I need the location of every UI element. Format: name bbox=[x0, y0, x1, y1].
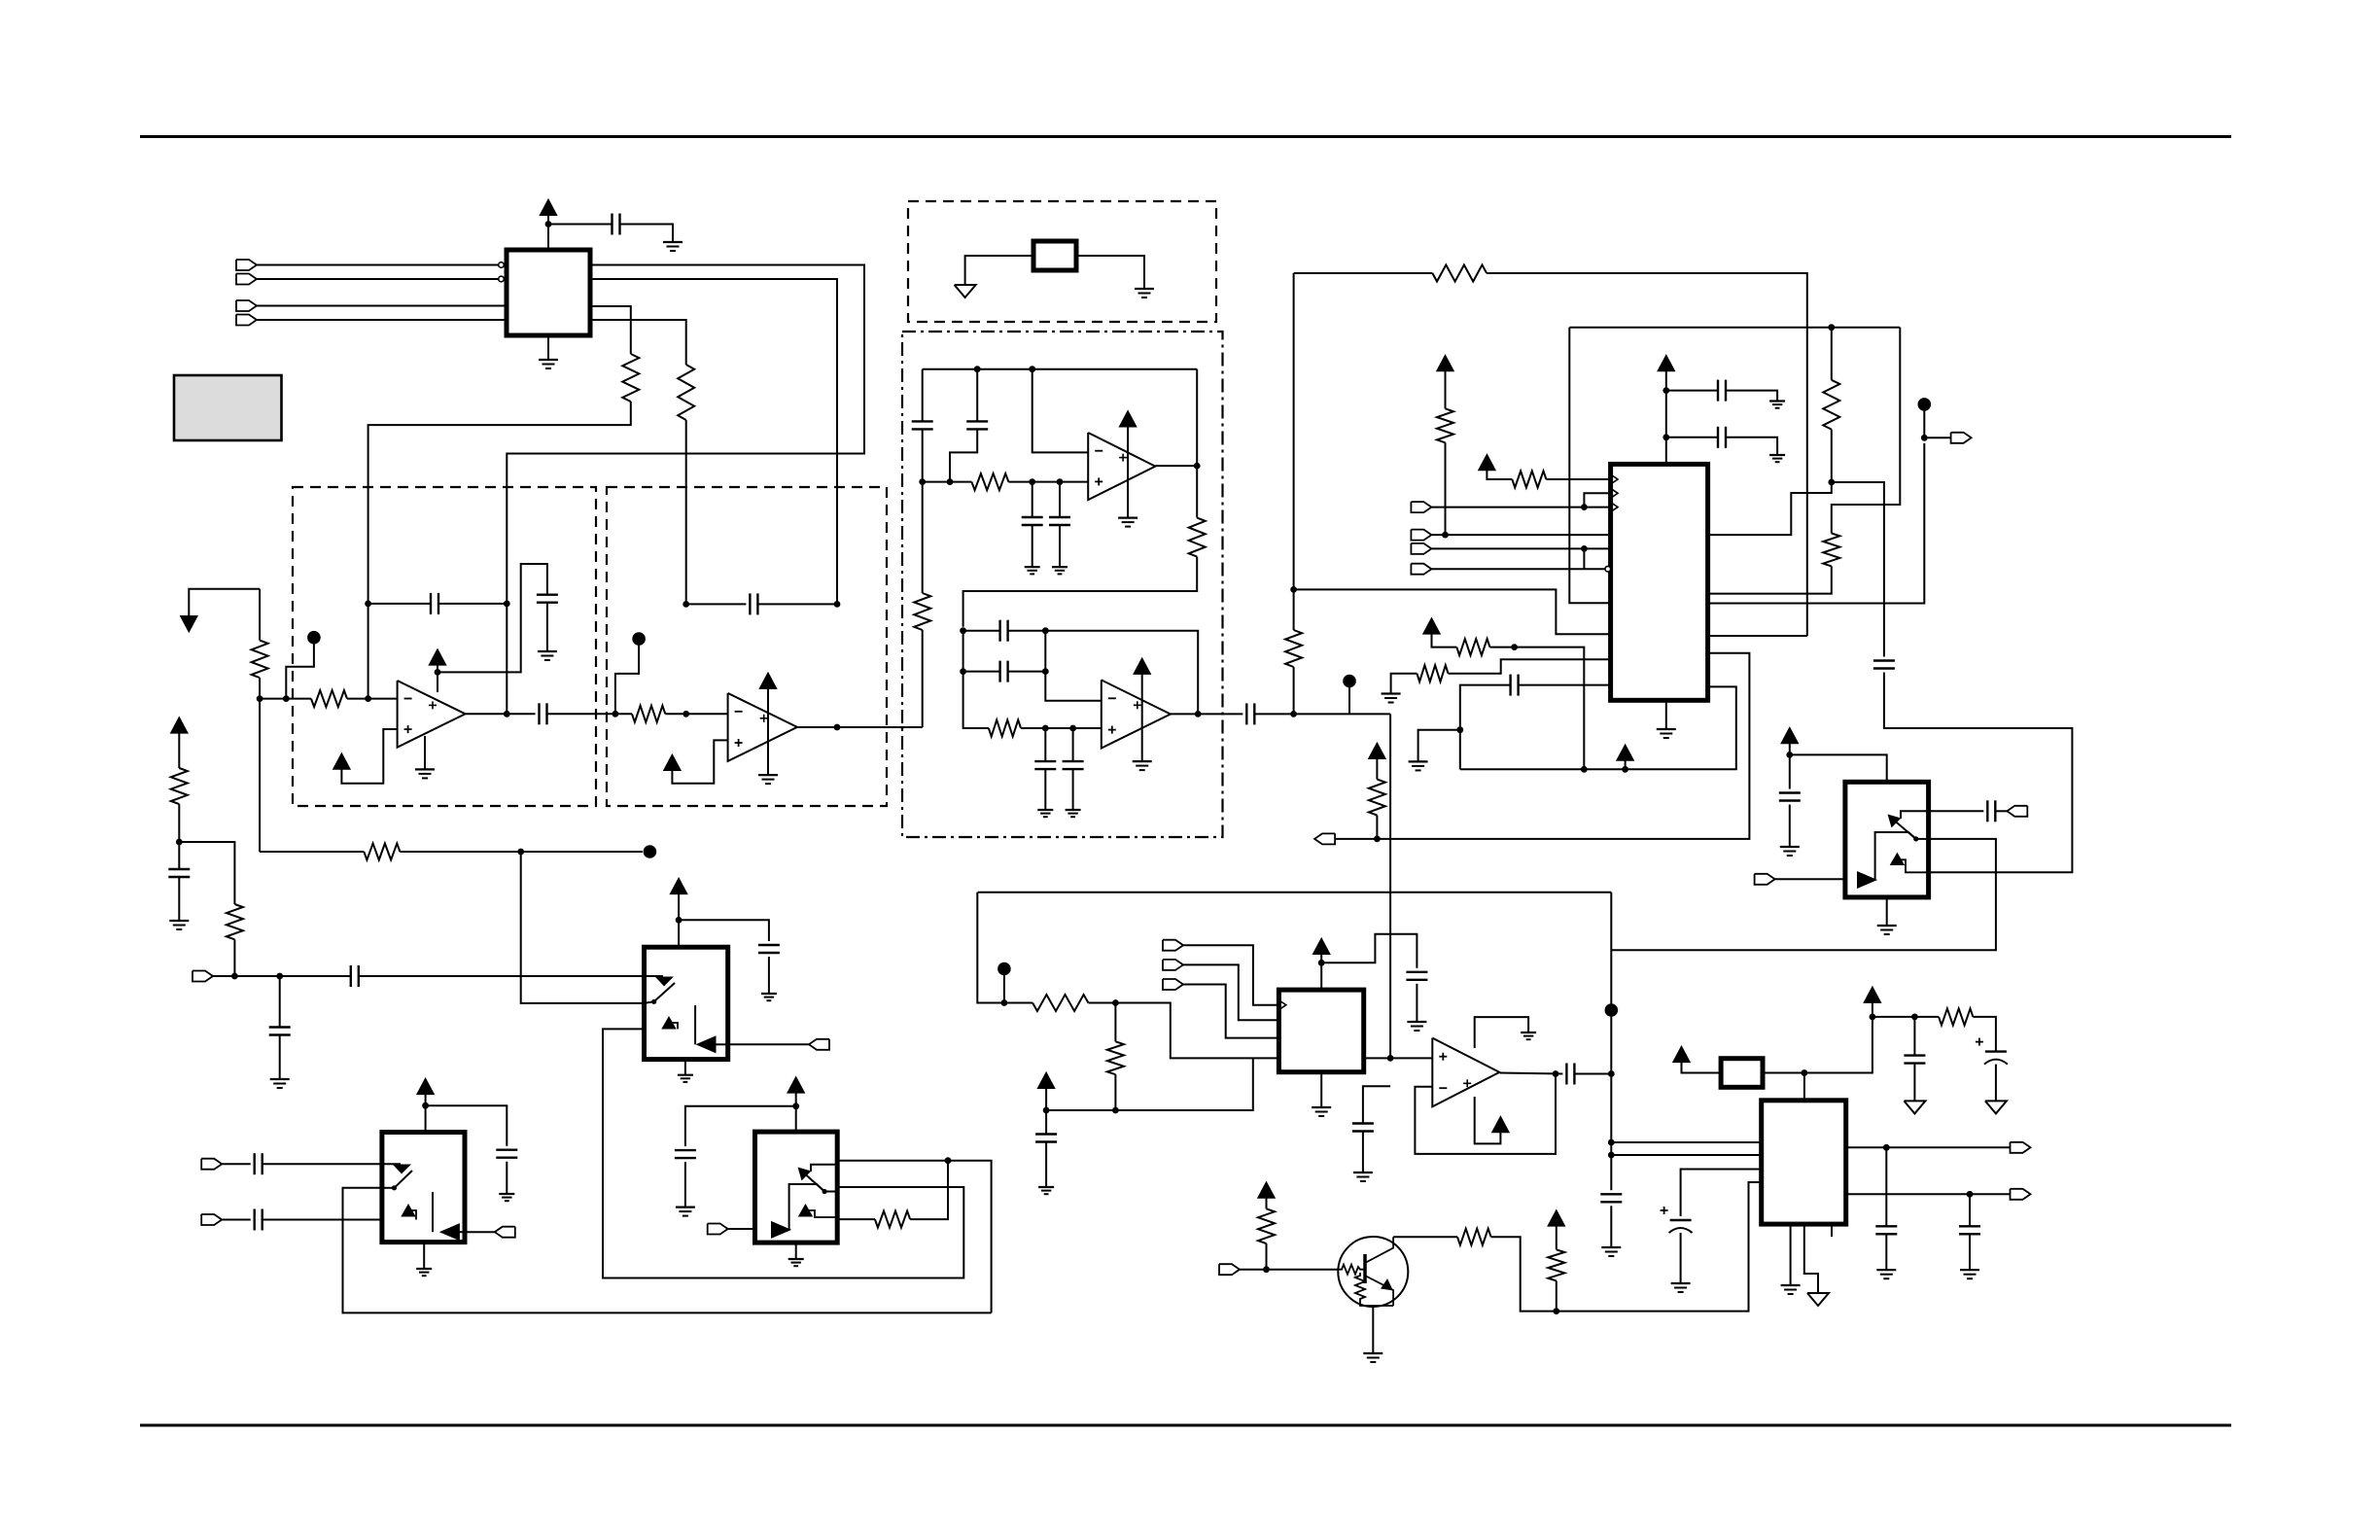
ground SW2 bbox=[678, 1074, 693, 1076]
junction C15/R13 node bbox=[1290, 711, 1297, 717]
capacitor C13 bbox=[1034, 760, 1056, 762]
Q1 base bar bbox=[1363, 1254, 1367, 1283]
SW4 arm arrowhead bbox=[395, 1166, 409, 1173]
wire R21 wires bbox=[1914, 1016, 1939, 1018]
wire node to C37 bbox=[279, 976, 281, 1028]
wire U3 control in bbox=[1557, 1182, 1762, 1312]
wire C7 to divider node bbox=[922, 429, 924, 481]
wire bias rail to U4 pin wire bbox=[1046, 1058, 1253, 1110]
wire opamp A supply stem bbox=[437, 665, 438, 692]
wire R10 to opamp C plus bbox=[1008, 481, 1088, 483]
junction box C input divider bbox=[919, 478, 926, 485]
SW3 pivot dot bbox=[822, 1189, 827, 1194]
wire supply to bypass C3 bbox=[437, 564, 547, 672]
junction out2 cap bbox=[1967, 1191, 1974, 1198]
resistor R21 bbox=[1939, 1008, 1973, 1025]
ground opamp E bbox=[1521, 1032, 1536, 1033]
ground C26 bbox=[1671, 1282, 1691, 1284]
junction opamp A supply bbox=[435, 669, 441, 676]
capacitor C18 bbox=[1873, 659, 1895, 661]
test point TP6 bbox=[1605, 1003, 1619, 1017]
wire C7 to top rail bbox=[922, 369, 924, 422]
wire SW1 bottom stem bbox=[1886, 897, 1888, 926]
ground opamp C bbox=[1118, 516, 1137, 518]
test point TP3 bbox=[644, 845, 657, 858]
capacitor C38 bbox=[1035, 1133, 1057, 1135]
wire staircase to U2 pin 550 (right side) bbox=[1708, 482, 1832, 535]
ground C38 bbox=[1038, 1186, 1054, 1188]
SW2 pole wire bbox=[645, 1001, 654, 1003]
capacitor C6 (feedback) bbox=[749, 593, 751, 614]
switch SW3 bbox=[755, 1132, 838, 1242]
wire to test point TP3 bbox=[521, 851, 643, 853]
wire TP7 stub bbox=[1003, 975, 1005, 1003]
wire U1 GND stem bbox=[547, 335, 549, 360]
SW1 pivot dot bbox=[1913, 836, 1918, 841]
SW4 output wire internal bbox=[459, 1231, 465, 1233]
wire long feedback vertical bbox=[1293, 273, 1295, 589]
wire SW1 out to C21 bbox=[1929, 810, 1984, 812]
wire output vertical bbox=[506, 604, 507, 714]
SW4 throw2 arrow bbox=[402, 1206, 414, 1216]
wire output vertical to R11 bbox=[1196, 369, 1198, 518]
wire R16 to junction bbox=[1445, 442, 1447, 535]
wire R21 to C25 bbox=[1973, 1017, 1995, 1052]
wire VCC to C1 bbox=[548, 224, 612, 226]
capacitor C14 bbox=[1063, 760, 1084, 762]
wire U3 gnd stem 2 (jog) bbox=[1804, 1224, 1818, 1293]
wire opamp C output bbox=[1155, 465, 1197, 467]
connector J23 (left input) bbox=[192, 971, 213, 982]
resistor R11 bbox=[1189, 518, 1206, 557]
wire node to R3 bbox=[259, 589, 261, 641]
junction mute pullup bbox=[1374, 836, 1381, 843]
wire opamp B output bbox=[797, 726, 923, 728]
junction base node bbox=[1263, 1266, 1270, 1273]
wire opamp B output up to box C bbox=[922, 630, 924, 727]
wire bias to C38 bbox=[1045, 1110, 1047, 1135]
op-amp U6B bbox=[1102, 680, 1171, 748]
resistor R28 bbox=[1369, 780, 1385, 816]
capacitor C2 bbox=[168, 868, 190, 870]
Q1 emitter arrow bbox=[1382, 1280, 1391, 1289]
resistor R9 bbox=[914, 593, 930, 630]
wire R2 to box B input node bbox=[685, 420, 687, 604]
wire R14 to right vertical bbox=[1487, 273, 1807, 636]
wire J8 to U2 inverted pin bbox=[1431, 568, 1604, 570]
wire J6 to U2 pin bbox=[1431, 534, 1610, 536]
capacitor C22 (coupling) bbox=[1565, 1064, 1567, 1085]
transistor Q1 (digital NPN) bbox=[1338, 1237, 1408, 1307]
resistor R24 bbox=[1548, 1249, 1564, 1280]
capacitor C20 bbox=[1779, 791, 1801, 793]
resistor R2 bbox=[678, 365, 694, 420]
wire bias rail horizontal bbox=[978, 892, 1612, 893]
ground C37 bbox=[270, 1078, 290, 1080]
Q1 internal base resistor bbox=[1339, 1265, 1364, 1275]
capacitor C25 (polarized) bbox=[1985, 1050, 2007, 1052]
ground C14 bbox=[1066, 809, 1081, 811]
junction VCC bypass 2 bbox=[1662, 434, 1669, 440]
junction R19 bbox=[1511, 644, 1518, 650]
wire C30 top to signal bbox=[1363, 1086, 1390, 1123]
power arrow ferrite bbox=[1674, 1047, 1690, 1062]
resistor R5 bbox=[171, 768, 188, 804]
border rule top bbox=[140, 135, 2231, 138]
wire pullup to R16 bbox=[1445, 370, 1447, 408]
wire opamp A plus input bias bbox=[341, 729, 397, 784]
ground C31 bbox=[761, 993, 777, 995]
IC U2 bbox=[1611, 464, 1708, 700]
power arrow opamp B plus bias bbox=[664, 755, 680, 770]
wire SW3 pole to SW2 bbox=[603, 1029, 963, 1277]
wire J21 to C35 bbox=[222, 1219, 251, 1221]
SW1 pole out wire bbox=[1916, 838, 1929, 840]
wire TP2 stub bbox=[615, 646, 639, 715]
SW2 throw1 stub bbox=[645, 976, 663, 983]
junction 5V node bbox=[1870, 1014, 1876, 1021]
power arrow base pullup bbox=[1259, 1183, 1275, 1198]
wire U1 pin1 feedback to opamp A output node bbox=[507, 265, 864, 604]
wire Q1 collector to R23 bbox=[1393, 1236, 1457, 1238]
pin marker U4 clk bbox=[1278, 1000, 1285, 1010]
junction opamp C output bbox=[1194, 463, 1201, 470]
resistor R3 bbox=[252, 641, 268, 679]
connector J3 bbox=[236, 300, 257, 311]
wire fanout up to pin bbox=[1584, 493, 1610, 507]
inversion bubble U1 pin1 bbox=[499, 262, 505, 268]
wire loop right vertical bbox=[1832, 328, 1901, 534]
wire C38 to ground bbox=[1045, 1142, 1047, 1188]
wire R20 left to ground bbox=[1391, 674, 1417, 694]
junction C12 right bbox=[1042, 668, 1049, 675]
wire R4 to opamp A inverting input bbox=[347, 698, 398, 700]
wire C13 top bbox=[1044, 728, 1046, 761]
junction TP1 stub bbox=[283, 695, 290, 702]
wire U3 out 1 bbox=[1846, 1146, 2011, 1148]
wire R17 top bbox=[1831, 328, 1833, 380]
wire R6 to input node bbox=[233, 939, 235, 976]
wire C5 to box B bbox=[547, 713, 633, 715]
op-amp U5A bbox=[398, 681, 466, 748]
wire Y1 left to AGND bbox=[965, 256, 1033, 285]
IC U3 bbox=[1762, 1101, 1846, 1224]
wire dot to C18 bbox=[1832, 482, 1884, 657]
wire C2 to ground bbox=[178, 877, 180, 921]
power arrow U2 VCC bbox=[1659, 356, 1674, 370]
wire bias arrow stem bbox=[1045, 1088, 1047, 1110]
wire U3 analog in bbox=[1681, 1170, 1762, 1217]
capacitor C32 bbox=[675, 1149, 696, 1151]
ground C29 bbox=[1407, 1021, 1426, 1023]
capacitor C34 bbox=[254, 1153, 256, 1174]
wire minus net vertical bbox=[1045, 631, 1102, 701]
connector J14 bbox=[1163, 940, 1183, 951]
SW2 pivot dot bbox=[651, 999, 656, 1004]
wire C32 to ground bbox=[684, 1162, 686, 1207]
wire R1 to box A input node bbox=[368, 402, 631, 699]
SW4 pole wire bbox=[382, 1187, 395, 1189]
wire divider node to R10 bbox=[923, 481, 972, 483]
ground SW1 bbox=[1877, 925, 1897, 927]
resistor R15 bbox=[1512, 472, 1546, 488]
SW4 switch arm bbox=[395, 1171, 413, 1188]
wire supply to C32 bbox=[685, 1106, 796, 1146]
wire bias node to R6 bbox=[179, 842, 234, 904]
dash-dot box C bbox=[902, 332, 1223, 837]
dashed box B bbox=[607, 487, 887, 806]
wire opamp E feedback bbox=[1415, 1074, 1556, 1154]
connector J18 bbox=[809, 1039, 829, 1050]
capacitor C24 bbox=[1904, 1054, 1925, 1056]
wire U2 pin to mute connector bbox=[1335, 653, 1749, 839]
ground U1 bbox=[539, 359, 558, 361]
wire 5V to R21 bbox=[1872, 1016, 1915, 1018]
wire TP5 stub bbox=[1923, 411, 1925, 438]
capacitor C1 bbox=[611, 214, 612, 235]
wire U4 GND stem bbox=[1320, 1072, 1322, 1107]
ground C13 bbox=[1037, 809, 1053, 811]
wire C14 top bbox=[1072, 728, 1074, 761]
capacitor C37 (shunt) bbox=[269, 1026, 291, 1028]
junction U3 sense 2 bbox=[1608, 1152, 1615, 1159]
resistor R12 bbox=[989, 720, 1021, 737]
test point TP2 bbox=[632, 632, 646, 646]
connector J19 bbox=[708, 1224, 728, 1235]
wire base node to Q1 bbox=[1267, 1269, 1340, 1271]
switch SW1 bbox=[1845, 782, 1929, 897]
switch SW4 bbox=[382, 1133, 465, 1242]
wire pullup stem bbox=[1556, 1226, 1557, 1250]
junction U3 VCC bbox=[1802, 1069, 1808, 1076]
wire U3 out 2 bbox=[1846, 1193, 2011, 1195]
connector J6 bbox=[1411, 530, 1431, 541]
junction VCC bypass 1 bbox=[1662, 387, 1669, 394]
connector J20 bbox=[201, 1159, 222, 1170]
ground SW3 bbox=[788, 1258, 804, 1260]
wire Q1 emitter to ground bbox=[1372, 1306, 1374, 1353]
wire J16 to U4 pin3 bbox=[1183, 985, 1278, 1038]
wire conn J1 to U1 pin1 bbox=[258, 264, 499, 266]
power arrow U4 bias bbox=[1038, 1073, 1054, 1088]
junction top rail C8 bbox=[974, 366, 981, 372]
capacitor C21 bbox=[1986, 800, 1988, 822]
junction top rail minus leg bbox=[1029, 366, 1035, 372]
capacitor C7 bbox=[912, 420, 933, 422]
capacitor C4 (feedback) bbox=[430, 593, 432, 614]
wire C14 to ground bbox=[1072, 769, 1074, 810]
junction TP7 bbox=[1001, 999, 1008, 1006]
power arrow SW4 bbox=[418, 1079, 434, 1094]
connector J13 bbox=[2011, 1189, 2031, 1200]
resistor R23 bbox=[1457, 1229, 1491, 1245]
ground C17 bbox=[1769, 454, 1785, 456]
junction R26/R27 bbox=[1112, 999, 1119, 1006]
inversion bubble U2 bbox=[1605, 566, 1611, 572]
wire C19 right to U2 pin bbox=[1519, 684, 1611, 686]
wire opamp C supply to ground bbox=[1127, 427, 1129, 518]
connector J1 bbox=[236, 260, 257, 270]
wire J10 to SW1 bbox=[1775, 878, 1845, 880]
wire R27 top bbox=[1114, 1003, 1116, 1042]
ground U3 2 (open) bbox=[1807, 1293, 1829, 1306]
junction R17 bottom bbox=[1828, 479, 1835, 486]
wire opamp E vminus to ground bbox=[1475, 1017, 1528, 1048]
wire SW1 supply stem bbox=[1789, 743, 1791, 788]
wire fanout down to inverted pin bbox=[1583, 548, 1585, 569]
junction SW1 supply bbox=[1786, 752, 1793, 758]
wire SW4 supply stem bbox=[425, 1094, 427, 1132]
wire bottom input run bbox=[260, 851, 364, 853]
test point TP1 bbox=[307, 631, 321, 645]
resistor R6 bbox=[227, 904, 243, 939]
wire conn J2 to U1 pin2 bbox=[258, 278, 499, 280]
ground C30 bbox=[1353, 1172, 1373, 1173]
junction R3/minus wire bbox=[257, 695, 263, 702]
ground C10 bbox=[1052, 566, 1067, 568]
connector J10 bbox=[1755, 874, 1775, 885]
resistor R7 bbox=[364, 844, 400, 860]
capacitor C12 bbox=[998, 661, 1000, 682]
SW3 switch arm bbox=[801, 1171, 824, 1192]
wire C16 to ground bbox=[1726, 391, 1777, 402]
wire R12 to opamp D plus bbox=[1021, 727, 1102, 729]
ground C23 bbox=[1601, 1246, 1621, 1248]
wire signal down to U4 input bbox=[1389, 714, 1391, 1058]
wire aux arrow stem bbox=[1625, 760, 1627, 770]
wire C31 to ground bbox=[768, 957, 770, 994]
wire cap ladder left vertical bbox=[962, 631, 964, 672]
capacitor C26 (polarized) bbox=[1670, 1219, 1692, 1221]
wire C1 to ground bbox=[620, 225, 674, 243]
SW3 arm arrowhead bbox=[799, 1169, 810, 1179]
junction R19 leg bbox=[1581, 766, 1588, 773]
wire C18 to SW1 loop bbox=[1884, 673, 2072, 873]
wire J7 to U2 pin bbox=[1431, 547, 1610, 549]
junction shunt cap bbox=[276, 973, 283, 980]
capacitor C30 bbox=[1352, 1122, 1374, 1124]
SW1 throw1 stub bbox=[1901, 811, 1929, 819]
SW2 output wire internal bbox=[716, 1043, 728, 1045]
wire R7 to junction bbox=[400, 851, 520, 853]
wire U2 pin to TP5 vertical bbox=[1708, 443, 1925, 604]
wire C22 to bias vertical bbox=[1574, 1073, 1611, 1075]
wire SW3 bottom stem bbox=[795, 1242, 797, 1259]
junction C4 right bbox=[504, 601, 510, 608]
wire C35 to SW4 bbox=[262, 1219, 382, 1221]
wire arrow stub to node bbox=[189, 589, 260, 615]
wire SW4 out right bbox=[465, 1231, 495, 1233]
wire conn J4 to U1 pin4 bbox=[258, 319, 507, 321]
wire J20 to C34 bbox=[222, 1163, 251, 1165]
ground C16 bbox=[1769, 400, 1785, 402]
capacitor C27 bbox=[1875, 1225, 1897, 1227]
wire C8 bottom to plus step bbox=[950, 429, 977, 481]
wire J5 to U2 pins bbox=[1431, 507, 1610, 508]
ground R20 bbox=[1382, 692, 1401, 694]
ground C27 bbox=[1876, 1269, 1896, 1271]
wire R13 to junction bbox=[1293, 667, 1295, 714]
wire minus leg down bbox=[1032, 369, 1089, 453]
connector J11 bbox=[2007, 806, 2027, 817]
wire ferrite left bbox=[1682, 1062, 1722, 1072]
wire C17 to ground bbox=[1726, 437, 1777, 455]
wire loop-left vertical to U2 pin bbox=[1569, 328, 1610, 604]
junction bias cap bbox=[1043, 1107, 1050, 1114]
capacitor C35 bbox=[254, 1209, 256, 1231]
wire TP1 stub bbox=[286, 644, 314, 699]
wire SW2 bottom stem bbox=[684, 1060, 686, 1075]
resistor R16 bbox=[1437, 408, 1453, 442]
junction R6/input bbox=[231, 973, 238, 980]
capacitor C31 bbox=[758, 944, 780, 946]
SW1 arm arrowhead bbox=[1889, 816, 1900, 826]
wire supply to SW1 top bbox=[1790, 754, 1887, 782]
capacitor C5 (coupling) bbox=[538, 703, 540, 724]
junction R13 top bbox=[1290, 586, 1297, 593]
wire SW3 gain R25 bbox=[837, 1218, 875, 1220]
ground C2 bbox=[169, 920, 189, 922]
wire C24 top bbox=[1913, 1017, 1915, 1056]
wire input node to R4 bbox=[260, 698, 286, 700]
wire C28 to ground bbox=[1969, 1234, 1971, 1270]
SW4 output arrow bbox=[441, 1225, 459, 1240]
wire C19 leg down bbox=[1459, 730, 1461, 770]
wire node to C36 bbox=[280, 975, 351, 977]
wire C29 to ground bbox=[1416, 984, 1417, 1022]
capacitor C11 bbox=[998, 620, 1000, 642]
wire C11 left bbox=[963, 630, 1000, 632]
capacitor C28 bbox=[1959, 1225, 1980, 1227]
wire node to U2 pin (staircase) bbox=[1294, 589, 1611, 634]
pin marker U2 clk1 bbox=[1611, 474, 1618, 484]
wire C15 to TP4 node bbox=[1254, 713, 1390, 715]
wire C25 to AGND bbox=[1995, 1065, 1997, 1102]
wire U2 pin to feedback vertical bbox=[1708, 635, 1807, 637]
wire ladder to R12 bbox=[963, 672, 989, 728]
border rule bottom bbox=[140, 1424, 2231, 1427]
power arrow SW1 supply bbox=[1782, 728, 1798, 743]
wire C24 to AGND bbox=[1913, 1064, 1915, 1102]
wire SW2 out right bbox=[728, 1043, 809, 1045]
ground U2 bbox=[1657, 728, 1676, 730]
power arrow aux 1 bbox=[1618, 746, 1633, 760]
capacitor C10 bbox=[1049, 516, 1070, 518]
resistor R20 bbox=[1417, 665, 1448, 682]
junction C19 ground leg bbox=[1456, 726, 1463, 733]
wire SW3 throw1 out bbox=[837, 1161, 991, 1313]
junction U4 out bbox=[1387, 1055, 1394, 1062]
Q1 internal bottom wire bbox=[1360, 1303, 1393, 1306]
wire conn J3 to U1 pin3 bbox=[258, 305, 507, 307]
wire pullup to R22 bbox=[1266, 1198, 1268, 1209]
resistor R19 bbox=[1456, 639, 1489, 655]
wire to ground left bbox=[1418, 730, 1460, 762]
power arrow U2 input pullup bbox=[1479, 455, 1494, 470]
SW2 switch arm bbox=[654, 983, 675, 1001]
junction feedback cap C6 left bbox=[682, 601, 689, 608]
wire J17 to base node bbox=[1240, 1269, 1267, 1271]
wire U4 VCC stem bbox=[1320, 954, 1322, 990]
op-amp U7 bbox=[1432, 1038, 1499, 1107]
junction feedback cap C4 left bbox=[365, 601, 371, 608]
power arrow opamp A supply bbox=[430, 650, 445, 665]
resistor R18 bbox=[1823, 534, 1839, 567]
power arrow opamp E supply bbox=[1492, 1117, 1508, 1132]
Q1 emitter bbox=[1365, 1276, 1393, 1306]
wire C37 to ground bbox=[279, 1035, 281, 1080]
dashed box A bbox=[293, 487, 596, 806]
